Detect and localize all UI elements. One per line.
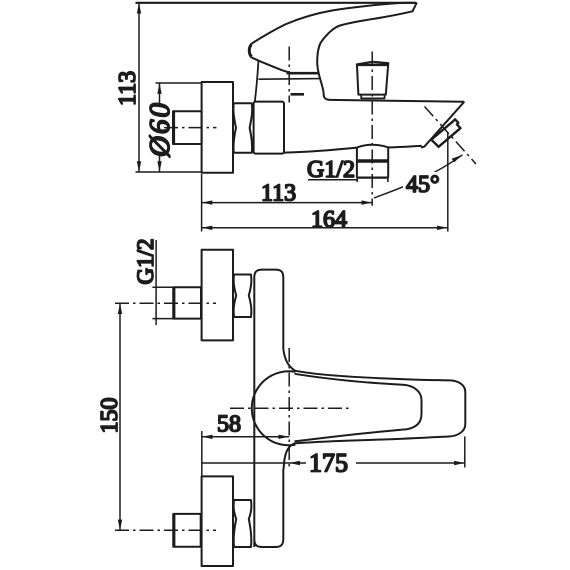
45deg dimension arc: [374, 155, 463, 198]
arrow D60 bottom: [157, 161, 161, 172]
wall flange (side view): [202, 82, 233, 173]
svg-text:113: 113: [115, 71, 141, 106]
extension tick for D60 top: [156, 82, 202, 84]
body centerline vertical: [288, 47, 290, 103]
G1/2 extension ticks: [152, 287, 173, 318]
outlet thread heavy band: [357, 159, 388, 162]
union nut (side view, spool shape): [233, 103, 252, 153]
body union block (side view): [254, 102, 284, 154]
cap heavy line A segment: [287, 72, 320, 75]
knob base collar: [361, 95, 384, 99]
extension line top (tangent to handle): [136, 2, 417, 4]
lever handle outline: [249, 3, 416, 100]
extension line 58 left: [201, 431, 203, 476]
spout top edge: [330, 100, 464, 102]
threaded nipple (side view): [173, 111, 202, 144]
spout inner face outline: [295, 374, 422, 442]
spout nose bulb arc: [252, 371, 296, 445]
svg-text:164: 164: [311, 207, 347, 233]
outlet bottom ticks: [357, 178, 388, 182]
union nut lower (spool): [234, 500, 252, 547]
dimension line 175: [202, 462, 465, 464]
svg-text:Ø60: Ø60: [144, 101, 176, 158]
dimension line D60: [159, 83, 161, 172]
centerline upper inlet: [115, 302, 216, 304]
centerline lower inlet: [115, 529, 216, 531]
handle tip end cap blob: [249, 45, 251, 57]
wall flange upper (front view): [202, 250, 233, 341]
svg-text:113: 113: [261, 181, 296, 207]
body column (front view): [254, 270, 283, 547]
extension line 175 right: [464, 436, 466, 467]
knob heavy top line: [358, 64, 388, 67]
knob / outlet centerline: [371, 52, 373, 206]
centerline spout horizontal: [230, 407, 350, 409]
svg-text:58: 58: [217, 412, 241, 438]
threaded nipple upper: [173, 287, 201, 318]
label 45deg: [403, 172, 438, 193]
svg-text:G1/2: G1/2: [133, 239, 158, 285]
svg-text:175: 175: [309, 449, 348, 478]
svg-text:45°: 45°: [406, 172, 440, 198]
svg-text:150: 150: [97, 398, 123, 434]
threaded nipple lower: [173, 514, 200, 547]
union nut upper (spool): [234, 275, 252, 318]
spout axis centerline 45deg: [425, 107, 477, 165]
cartridge cap left edge: [255, 62, 259, 102]
arrow 113v top: [137, 3, 141, 14]
extension line left (from flange): [201, 174, 203, 232]
spout outer outline (front view): [283, 349, 465, 469]
shower outlet G1/2 body: [357, 147, 388, 177]
short heavy tick under cap: [291, 93, 305, 96]
arrow D60 top: [157, 83, 161, 94]
dimension line 113 horizontal: [202, 202, 373, 204]
spout underside with outlet hump and 45deg cut: [284, 102, 464, 153]
dimension line 164: [202, 227, 448, 229]
handle front lower edge: [252, 58, 290, 73]
diverter knob: [357, 62, 388, 95]
centerline body vertical: [288, 348, 290, 468]
wall flange lower: [202, 476, 233, 566]
G1/2 leader line vertical: [155, 240, 157, 325]
cap ledge line B: [259, 78, 321, 81]
aerator nozzle on 45deg cut: [431, 119, 460, 147]
arrow 113v bottom: [137, 161, 141, 172]
dimension line 58: [202, 436, 289, 438]
extension line bottom: [136, 171, 202, 173]
dimension line 150 vertical: [119, 303, 121, 530]
centerline inlet (side view): [164, 127, 217, 129]
extension line right (from nozzle center): [447, 133, 449, 232]
dimension line 113 vertical: [138, 3, 140, 172]
